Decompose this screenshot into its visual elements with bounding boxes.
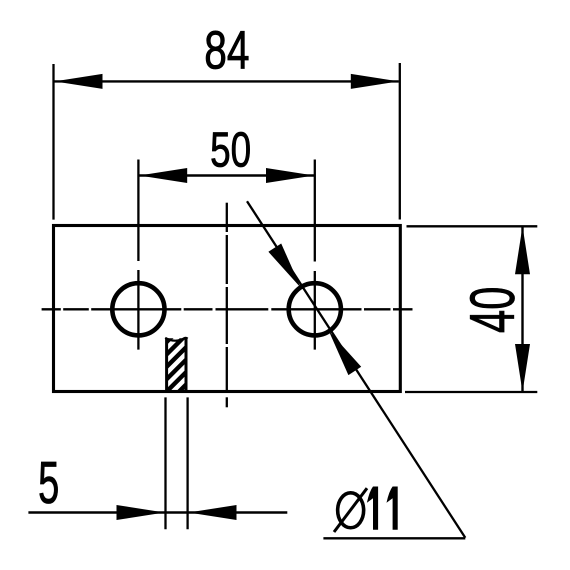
svg-text:84: 84 [204, 21, 249, 81]
svg-text:50: 50 [210, 124, 251, 178]
svg-text:5: 5 [38, 450, 59, 517]
svg-text:40: 40 [459, 287, 529, 333]
